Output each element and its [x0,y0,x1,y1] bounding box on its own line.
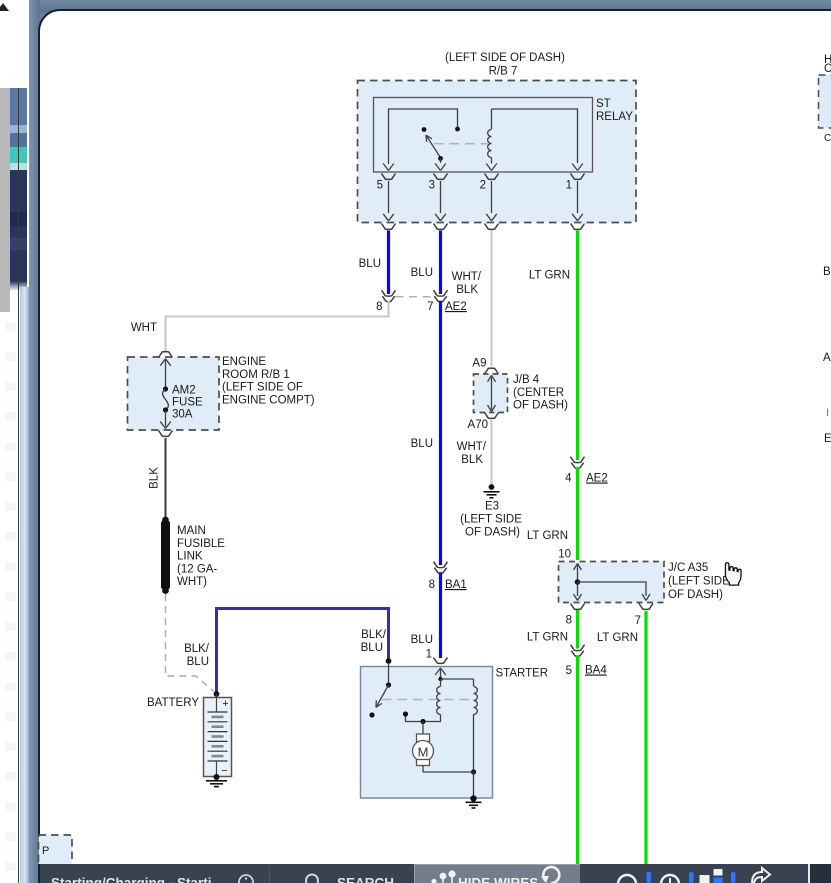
svg-text:J/B 4: J/B 4 [513,374,540,386]
svg-text:FUSE: FUSE [172,397,203,409]
svg-text:30A: 30A [172,409,193,421]
svg-text:3: 3 [429,180,435,192]
svg-text:8: 8 [429,579,435,591]
svg-text:BA1: BA1 [445,579,467,591]
svg-text:HIDE WIRES: HIDE WIRES [458,876,538,883]
svg-text:BLU: BLU [411,267,433,279]
svg-text:5: 5 [566,665,572,677]
svg-text:B: B [823,266,831,278]
svg-text:ROOM R/B 1: ROOM R/B 1 [222,369,290,381]
svg-text:1: 1 [566,180,572,192]
svg-text:WHT): WHT) [177,576,207,588]
svg-text:1: 1 [426,649,432,661]
svg-text:R/B 7: R/B 7 [489,66,518,78]
svg-text:CO: CO [824,63,831,75]
svg-text:OF DASH): OF DASH) [668,589,723,601]
svg-text:BLU: BLU [359,258,381,270]
svg-text:10: 10 [558,549,571,561]
svg-text:A9: A9 [472,358,486,370]
svg-text:4: 4 [565,473,572,485]
svg-text:MAIN: MAIN [177,525,206,537]
svg-text:BLU: BLU [411,634,433,646]
svg-text:AE2: AE2 [586,473,608,485]
svg-text:+: + [222,698,228,710]
svg-text:ST: ST [596,98,611,110]
svg-text:SEARCH: SEARCH [337,876,394,883]
svg-text:8: 8 [566,615,572,627]
svg-text:A: A [823,352,831,364]
svg-text:−: − [221,765,227,777]
svg-text:FUSIBLE: FUSIBLE [177,538,225,550]
svg-text:LT GRN: LT GRN [527,632,568,644]
svg-text:8: 8 [376,301,382,313]
svg-text:M: M [418,745,429,760]
svg-text:I: I [826,407,829,419]
svg-text:WHT: WHT [131,322,157,334]
svg-text:(12 GA-: (12 GA- [177,563,217,575]
svg-text:C: C [824,133,831,144]
svg-text:7: 7 [427,301,433,313]
svg-text:E: E [824,433,831,445]
svg-text:Starting/Charging - Starti: Starting/Charging - Starti [51,876,212,883]
svg-text:LINK: LINK [177,551,203,563]
svg-text:LT GRN: LT GRN [597,632,638,644]
svg-text:J/C A35: J/C A35 [668,562,708,574]
svg-text:BLK: BLK [456,284,478,296]
svg-text:ENGINE: ENGINE [222,356,266,368]
svg-text:7: 7 [635,615,641,627]
svg-text:BLK: BLK [149,467,161,489]
svg-text:A70: A70 [468,419,488,431]
svg-text:STARTER: STARTER [496,668,549,680]
svg-text:(LEFT SIDE: (LEFT SIDE [668,576,730,588]
svg-text:AM2: AM2 [172,385,196,397]
svg-text:BLU: BLU [187,656,209,668]
svg-text:LT GRN: LT GRN [527,530,568,542]
svg-text:(CENTER: (CENTER [513,387,564,399]
svg-text:P: P [42,845,49,857]
svg-text:LT GRN: LT GRN [529,270,570,282]
svg-text:BLU: BLU [361,642,383,654]
svg-text:(LEFT SIDE OF DASH): (LEFT SIDE OF DASH) [445,52,565,64]
svg-text:WHT/: WHT/ [457,441,487,453]
svg-text:(LEFT SIDE: (LEFT SIDE [460,514,522,526]
svg-text:BLU: BLU [411,438,433,450]
svg-text:E3: E3 [485,501,499,513]
svg-text:OF DASH): OF DASH) [513,400,568,412]
svg-text:AE2: AE2 [445,301,467,313]
svg-text:BLK: BLK [461,454,483,466]
svg-text:OF DASH): OF DASH) [465,527,520,539]
svg-text:BLK/: BLK/ [361,629,387,641]
svg-text:WHT/: WHT/ [452,271,482,283]
svg-text:(LEFT SIDE OF: (LEFT SIDE OF [222,382,303,394]
svg-text:RELAY: RELAY [596,111,633,123]
svg-text:5: 5 [377,180,383,192]
svg-text:BATTERY: BATTERY [147,697,199,709]
svg-text:BLK/: BLK/ [184,643,210,655]
svg-text:2: 2 [480,180,486,192]
svg-text:BA4: BA4 [585,665,607,677]
svg-text:ENGINE COMPT): ENGINE COMPT) [222,394,315,406]
